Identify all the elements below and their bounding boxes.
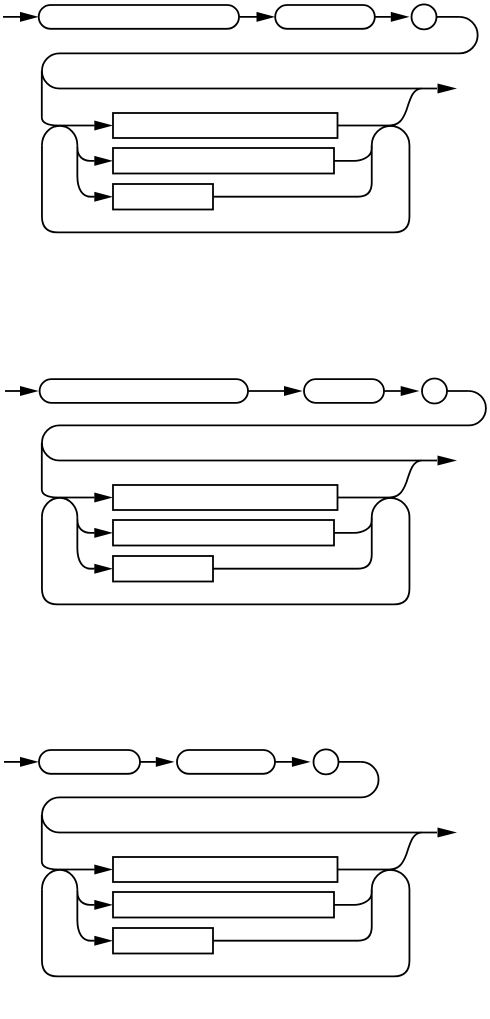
G2 arrowhead [20,386,39,396]
G3 row B arrowhead [94,900,113,910]
G3 wire [140,761,156,763]
G3 wire [4,761,20,763]
G2 terminal capsule [304,379,384,403]
G1 row A arrowhead [94,121,113,131]
G2 wire [248,390,284,392]
G3 descent wire to row A [42,815,95,870]
G1 wire [3,16,20,18]
G1 box B [113,148,334,174]
G2 box B [113,520,334,546]
G1 circle node [412,4,437,29]
G1 arrowhead [391,12,410,22]
G1 wire [239,16,257,18]
G1 row C arrowhead [94,192,113,202]
G2 arrowhead [284,386,303,396]
G3 circle node [314,749,339,774]
G2 circle node [422,379,447,404]
G2 terminal capsule [40,379,248,403]
G2 arrowhead [401,386,420,396]
G2 wire [448,390,469,392]
G3 box C exit wire [213,889,372,941]
G2 loop dome left [42,498,77,517]
G1 terminal capsule [39,5,239,29]
G3 wire [339,761,361,763]
G2 descent wire to row A [42,443,95,498]
G1 box A exit wire (S-curve to forward line) [338,89,423,126]
G3 box B [113,892,334,918]
G3 arrowhead [292,757,311,767]
G3 fan wire to row C [77,892,94,941]
G3 box A [113,857,338,882]
G2 right U-turn down to return line [60,391,486,425]
G3 left U-turn (return to forward line) [42,797,60,832]
G3 terminal capsule [177,750,275,774]
G2 forward line [60,460,438,462]
G3 forward line [60,832,438,834]
G2 fan wire to row B [77,517,94,533]
G1 descent wire to row A [42,71,95,126]
G3 wire [275,761,292,763]
G1 wire [437,16,459,18]
G3 right U-turn down to return line [60,762,379,798]
G3 terminal capsule [39,750,140,774]
G2 box A [113,485,338,510]
G2 box B exit wire [334,517,372,533]
G2 exit arrowhead [438,456,458,466]
G1 loop dome left [42,126,77,145]
G2 box A exit wire (S-curve to forward line) [338,461,423,498]
G1 arrowhead [257,12,276,22]
G1 wire [375,16,391,18]
G3 row A arrowhead [94,865,113,875]
G1 left U-turn (return to forward line) [42,53,60,88]
G1 box A [113,113,338,138]
G3 box C [113,928,213,954]
G1 fan wire to row C [77,148,94,197]
G1 terminal capsule [275,5,375,29]
G1 box B exit wire [334,145,372,161]
G2 wire [384,390,401,392]
G1 right U-turn down to return line [60,17,478,54]
G1 forward line [60,88,438,90]
G3 exit arrowhead [438,828,458,838]
G2 row A arrowhead [94,493,113,503]
G1 fan wire to row B [77,145,94,161]
G3 arrowhead [20,757,39,767]
G3 fan wire to row B [77,889,94,905]
G1 row B arrowhead [94,156,113,166]
G3 arrowhead [156,757,175,767]
G1 loop container outline [42,126,410,232]
G3 loop container outline [42,870,410,976]
G2 box C exit wire [213,517,372,569]
G1 arrowhead [20,12,39,22]
G2 box C [113,556,213,582]
G2 wire [5,390,20,392]
G3 box B exit wire [334,889,372,905]
G1 box C exit wire [213,145,372,197]
G3 row C arrowhead [94,936,113,946]
G2 left U-turn (return to forward line) [42,425,60,460]
G2 row B arrowhead [94,528,113,538]
G2 fan wire to row C [77,520,94,569]
G2 loop container outline [42,498,410,604]
G1 exit arrowhead [438,84,458,94]
G3 loop dome left [42,870,77,889]
G3 box A exit wire (S-curve to forward line) [338,833,423,870]
G1 box C [113,184,213,210]
G2 row C arrowhead [94,564,113,574]
